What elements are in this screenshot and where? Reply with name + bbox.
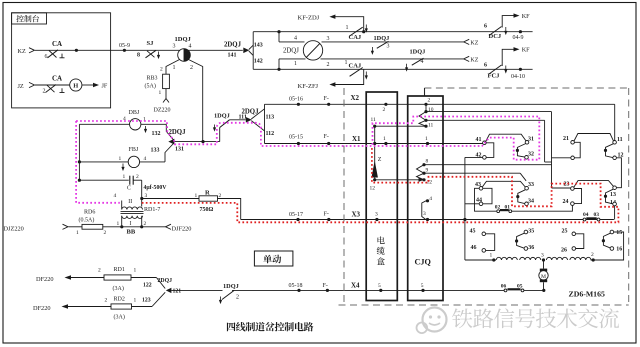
wire jumper 11-12 [606, 144, 614, 158]
node cable box terminal 12 [373, 178, 376, 181]
svg-text:8: 8 [137, 52, 140, 58]
wire 42 feed [465, 156, 483, 158]
svg-text:F-: F- [324, 134, 329, 140]
box 单动 [254, 251, 293, 266]
svg-text:RD2: RD2 [114, 297, 125, 303]
svg-text:11: 11 [371, 117, 377, 123]
watermark logo [423, 308, 447, 332]
wire bracket 43-44 [483, 188, 492, 204]
svg-text:F-: F- [324, 96, 329, 102]
svg-text:6: 6 [484, 63, 487, 69]
svg-text:1: 1 [117, 221, 120, 227]
svg-text:1: 1 [134, 268, 137, 274]
wire pins 4-3 line [279, 41, 305, 43]
svg-text:15: 15 [616, 230, 622, 236]
wire terminal 11 riser [374, 126, 376, 143]
svg-text:04: 04 [583, 212, 589, 218]
dashed outdoor box right [628, 88, 630, 305]
capacitor C 4uF-500V [79, 179, 128, 181]
wire rail right riser to 15 [591, 232, 624, 260]
caption 四线制道岔控制电路 [227, 322, 236, 331]
svg-text:3: 3 [375, 211, 378, 217]
wire pins 1-2 line [279, 58, 306, 60]
svg-text:12: 12 [370, 186, 376, 192]
svg-text:11: 11 [428, 123, 434, 129]
svg-text:BB: BB [127, 229, 136, 236]
svg-text:2: 2 [43, 89, 46, 95]
wire to KF (FCJ) [502, 49, 513, 66]
svg-text:Z: Z [378, 157, 382, 163]
svg-text:RD6: RD6 [84, 210, 95, 216]
svg-text:KF: KF [522, 47, 530, 54]
svg-text:1DQJ: 1DQJ [410, 49, 426, 56]
svg-text:II: II [128, 199, 132, 205]
wire X2 to 11 [614, 104, 616, 140]
svg-text:9: 9 [426, 167, 429, 173]
svg-text:DCJ: DCJ [489, 33, 502, 40]
svg-text:16: 16 [616, 247, 622, 253]
wire bracket 23-24 [574, 189, 581, 204]
svg-text:8: 8 [426, 159, 429, 165]
svg-text:RB3: RB3 [147, 76, 158, 82]
svg-text:26: 26 [561, 248, 567, 254]
svg-text:4: 4 [114, 193, 117, 199]
wire to BB pin1/2, DJF220 [103, 226, 166, 228]
svg-text:2: 2 [144, 221, 147, 227]
svg-text:1: 1 [76, 230, 79, 236]
wire left vertical (DBJ/FBJ bus) [78, 124, 80, 180]
svg-text:2: 2 [104, 230, 107, 236]
wire 43 left bracket to 02-01 [475, 188, 497, 211]
svg-text:5: 5 [378, 283, 381, 289]
wire cable12 - CJQ12 with arrow [375, 179, 420, 181]
svg-text:45: 45 [470, 229, 476, 235]
svg-text:M: M [541, 274, 546, 280]
svg-text:04-10: 04-10 [511, 74, 525, 80]
svg-text:3: 3 [387, 43, 390, 49]
svg-text:6: 6 [45, 54, 48, 60]
box CJQ [408, 96, 443, 301]
wire CJQ 10 line [426, 111, 552, 113]
svg-text:131: 131 [175, 146, 184, 152]
svg-text:X4: X4 [351, 282, 360, 290]
svg-text:CA: CA [52, 75, 62, 83]
svg-text:3: 3 [423, 211, 426, 217]
svg-text:1: 1 [119, 156, 122, 162]
resistor R 750ohm [142, 198, 199, 200]
node 04-9 [519, 30, 522, 33]
svg-text:3: 3 [327, 36, 330, 42]
svg-text:DZ220: DZ220 [154, 108, 171, 114]
svg-text:6: 6 [484, 24, 487, 30]
svg-text:2: 2 [383, 107, 386, 113]
svg-text:2: 2 [190, 65, 193, 71]
svg-text:1: 1 [490, 253, 493, 259]
wire KF-ZDJ takeoff [362, 30, 365, 33]
svg-text:05-16: 05-16 [289, 97, 303, 103]
node junction dot on KZ line [75, 49, 78, 52]
svg-text:1DQJ: 1DQJ [214, 113, 230, 120]
node CJQ terminal (11 jumper) [424, 119, 427, 122]
wire 14 to 04-03 line [614, 206, 616, 220]
svg-text:F-: F- [323, 283, 328, 289]
svg-text:11: 11 [617, 137, 623, 143]
svg-text:2: 2 [236, 295, 239, 301]
svg-text:RD1: RD1 [114, 267, 125, 273]
svg-text:2: 2 [160, 67, 163, 73]
wire 05-18 / X4 line [232, 289, 505, 291]
wire KF-ZFJ line (142 branch) [253, 68, 532, 70]
lamp H [70, 79, 82, 91]
svg-text:3: 3 [541, 253, 544, 259]
svg-text:C: C [127, 186, 131, 192]
svg-text:FCJ: FCJ [488, 73, 501, 80]
console box 控制台 [12, 13, 111, 108]
wire R to X3 [218, 199, 241, 220]
svg-text:CJQ: CJQ [415, 258, 432, 267]
svg-text:KZ: KZ [18, 48, 26, 55]
svg-text:ZD6-M165: ZD6-M165 [569, 290, 605, 299]
svg-text:KF: KF [522, 13, 530, 20]
svg-text:DBJ: DBJ [129, 110, 140, 116]
wire 131 common [174, 141, 219, 143]
svg-text:KF-ZFJ: KF-ZFJ [298, 83, 319, 90]
node cable box terminal 2 [384, 103, 387, 106]
svg-text:4μf-500V: 4μf-500V [144, 185, 168, 191]
svg-text:CAJ: CAJ [349, 63, 362, 70]
svg-text:750Ω: 750Ω [200, 207, 214, 213]
wire BB pin3 riser [141, 180, 143, 206]
svg-text:4: 4 [189, 44, 192, 50]
svg-text:24: 24 [563, 199, 569, 205]
wire jumper 13-14 [606, 189, 614, 204]
svg-text:(3A): (3A) [113, 285, 124, 292]
svg-text:05-15: 05-15 [289, 134, 303, 140]
svg-text:123: 123 [142, 298, 151, 304]
svg-text:H: H [73, 83, 78, 90]
svg-text:2: 2 [98, 268, 101, 274]
svg-text:DF220: DF220 [33, 305, 51, 312]
svg-text:1: 1 [123, 174, 126, 180]
wire CJQ 4-3 bracket [422, 201, 426, 220]
contact group 22/12 [571, 156, 575, 160]
svg-text:113: 113 [266, 114, 275, 120]
wire magenta operate-current path (main) [76, 117, 539, 160]
svg-text:33: 33 [528, 182, 534, 188]
svg-text:03: 03 [594, 212, 600, 218]
svg-text:05-9: 05-9 [119, 43, 130, 49]
svg-text:46: 46 [471, 245, 477, 251]
wire to KF (DCJ) [502, 16, 513, 28]
svg-text:35: 35 [528, 229, 534, 235]
wire 42 riser to winding rail [464, 157, 466, 260]
svg-text:(5A): (5A) [145, 82, 156, 89]
svg-text:32: 32 [528, 151, 534, 157]
wire riser (10-line down) [551, 112, 553, 188]
wire jumper 31-32 [517, 144, 525, 158]
box 电缆盒 (cable box) [366, 92, 397, 301]
svg-text:21: 21 [563, 136, 569, 142]
svg-text:CAJ: CAJ [349, 34, 362, 41]
svg-text:KF-ZDJ: KF-ZDJ [298, 15, 320, 22]
svg-text:FBJ: FBJ [129, 147, 139, 153]
svg-text:KZ: KZ [470, 58, 478, 64]
svg-text:RD1-7: RD1-7 [144, 207, 160, 213]
svg-text:2DQJ: 2DQJ [224, 42, 242, 49]
wire 23 feed [552, 187, 571, 189]
watermark text [452, 308, 473, 328]
svg-text:2: 2 [136, 174, 139, 180]
svg-text:DJF220: DJF220 [172, 226, 192, 233]
svg-text:DJZ220: DJZ220 [4, 226, 24, 233]
power DZ220 [165, 89, 167, 100]
svg-text:2: 2 [105, 298, 108, 304]
wire riser (11-line down) [544, 120, 546, 162]
svg-text:4: 4 [421, 59, 424, 65]
wire CJQ 11-10 jumper [419, 112, 426, 127]
dashed outdoor box bottom [339, 304, 629, 306]
wire top line (143 branch to DCJ) [253, 31, 532, 33]
svg-text:141: 141 [228, 53, 237, 59]
svg-text:1: 1 [425, 136, 428, 142]
wire H to JF [82, 84, 94, 86]
svg-text:132: 132 [152, 131, 161, 137]
svg-text:122: 122 [143, 283, 152, 289]
svg-text:1: 1 [383, 136, 386, 142]
svg-text:04-9: 04-9 [513, 35, 524, 41]
wire 05-15 / X1 line [265, 143, 483, 145]
svg-text:1: 1 [195, 193, 198, 199]
wire 1DQJ pin1 to fuse RB3 [166, 60, 180, 75]
wire 1DQJ pin2 down [189, 60, 203, 142]
wire KF-ZFJ takeoff [335, 69, 364, 84]
svg-text:1: 1 [345, 60, 348, 66]
node KZ arrow (line 1-2) [464, 56, 470, 61]
node KZ arrow (line 4-3) [464, 39, 470, 44]
svg-text:36: 36 [528, 245, 534, 251]
svg-text:1: 1 [294, 61, 297, 67]
wire 01 to 24 [512, 206, 573, 212]
wire CJQ zigzag 8-9-12 [417, 165, 425, 180]
svg-text:JZ: JZ [18, 83, 24, 90]
dashed outdoor box top [424, 87, 628, 89]
svg-text:121: 121 [173, 289, 182, 295]
svg-text:13: 13 [610, 192, 616, 198]
svg-text:1DQJ: 1DQJ [374, 35, 390, 42]
svg-text:1: 1 [134, 298, 137, 304]
svg-text:112: 112 [266, 131, 275, 137]
wire JZ line [35, 84, 70, 86]
svg-text:2DQJ: 2DQJ [283, 48, 299, 55]
wire KZ line [35, 49, 243, 51]
svg-text:1: 1 [346, 25, 349, 31]
svg-text:X3: X3 [352, 211, 361, 219]
wire winding rail [465, 259, 496, 261]
power DJF220 [166, 224, 172, 229]
motor M [543, 261, 545, 268]
wire 44 feed from riser [465, 203, 479, 205]
wire X4 common [171, 289, 222, 291]
wire CJQ 9 line [424, 172, 520, 174]
wire 05-17 / X3 line [241, 219, 614, 221]
svg-text:1DQJ: 1DQJ [175, 36, 192, 43]
svg-text:X2: X2 [351, 94, 360, 102]
svg-text:4: 4 [294, 36, 297, 42]
svg-text:3: 3 [173, 44, 176, 50]
wire cable11 - CJQ11 [375, 125, 426, 127]
svg-text:133: 133 [151, 148, 160, 154]
svg-text:2: 2 [327, 62, 330, 68]
wire 12 to 13 [616, 158, 621, 188]
wire magenta operate-current path (left loop) [76, 121, 120, 203]
dashed indoor/outdoor boundary (vertical) [343, 88, 345, 305]
svg-text:142: 142 [254, 58, 263, 64]
svg-text:05-17: 05-17 [289, 212, 303, 218]
svg-text:1DQJ: 1DQJ [223, 283, 239, 290]
svg-text:CA: CA [52, 40, 62, 48]
svg-text:143: 143 [254, 43, 263, 49]
svg-text:JF: JF [102, 83, 108, 90]
svg-text:SJ: SJ [147, 40, 155, 47]
svg-text:DF220: DF220 [36, 276, 54, 283]
wire bracket 113/112 [264, 104, 266, 143]
wire CJQ 11-feed line [426, 119, 545, 121]
svg-text:F-: F- [324, 212, 329, 218]
wire bracket 143/142 [252, 32, 254, 70]
svg-text:41: 41 [476, 137, 482, 143]
svg-text:1: 1 [159, 90, 162, 96]
svg-text:34: 34 [528, 198, 534, 204]
svg-text:2: 2 [428, 98, 431, 104]
svg-text:25: 25 [562, 229, 568, 235]
svg-text:(0.5A): (0.5A) [79, 217, 95, 224]
fuse RB3 (5A) [163, 74, 170, 88]
svg-text:1: 1 [173, 65, 176, 71]
svg-text:(3A): (3A) [114, 314, 125, 321]
wire bracket 21-22 [574, 142, 580, 158]
svg-text:I: I [130, 221, 132, 227]
svg-text:4: 4 [429, 196, 432, 202]
svg-text:2DQJ: 2DQJ [169, 129, 187, 136]
wire red reverse-current path [142, 147, 619, 223]
wire CJQ terminal 2 riser to top [424, 88, 426, 96]
wire CJQ 8 line [424, 164, 552, 166]
svg-text:06: 06 [501, 283, 507, 289]
svg-text:2: 2 [591, 252, 594, 258]
wire jumper 33-34 [518, 190, 525, 204]
svg-text:05-18: 05-18 [289, 283, 303, 289]
svg-text:5: 5 [421, 283, 424, 289]
wire 22 drop line [552, 157, 571, 159]
wire 05-16 / X2 line [265, 103, 615, 105]
node 05-9 [123, 49, 126, 52]
node 04-10 [519, 68, 522, 71]
svg-text:KZ: KZ [470, 41, 478, 47]
svg-text:4: 4 [144, 156, 147, 162]
svg-text:X1: X1 [352, 135, 361, 143]
inductor winding 3-2 [546, 257, 591, 260]
wire bracket 41-42 [486, 143, 494, 158]
inductor winding 1-3 [496, 257, 541, 260]
